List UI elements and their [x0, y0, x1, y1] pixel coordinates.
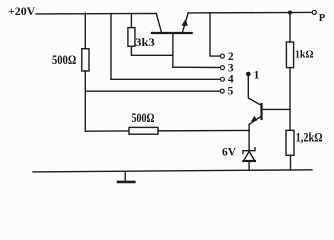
zener diode triangle [244, 151, 255, 161]
svg-text:5: 5 [228, 86, 234, 98]
svg-text:6V: 6V [222, 145, 236, 159]
svg-text:3k3: 3k3 [135, 35, 155, 49]
wire: Q1 base lead down [172, 34, 174, 67]
transistor Q1 emitter arrow [181, 19, 187, 26]
transistor Q1 emitter lead [182, 13, 188, 33]
wire: vertical drop from rail to 3k3 [130, 13, 132, 27]
wire: to terminal 3 [173, 66, 220, 68]
wire: vertical drop from rail to terminal 4 line [110, 14, 112, 80]
terminal 5 [220, 89, 224, 93]
terminal 1 (dot) [246, 72, 251, 77]
terminal P [312, 10, 316, 14]
transistor Q2 emitter arrow [251, 116, 258, 122]
resistor 500ohm (horizontal) [129, 127, 158, 134]
wire: lower horizontal run with 500ohm [85, 129, 249, 132]
wire: branch to terminal 5 [85, 90, 220, 92]
terminal 2 [220, 54, 224, 58]
svg-text:1,2kΩ: 1,2kΩ [296, 130, 323, 144]
terminal 3 [220, 66, 224, 70]
wire: to terminal 4 [111, 78, 220, 80]
transistor Q1 collector lead [156, 14, 161, 33]
wire: vertical from output rail to terminal 2 [210, 13, 220, 56]
svg-text:4: 4 [228, 74, 234, 86]
wire: vertical drop to 500 ohm resistor [84, 13, 86, 49]
resistor 1,2kohm [286, 130, 294, 155]
wire: zener bottom lead [248, 161, 250, 170]
svg-text:500Ω: 500Ω [132, 111, 155, 125]
svg-text:+20V: +20V [8, 6, 36, 18]
wire: output rail right segment to P [188, 11, 312, 14]
svg-text:P: P [319, 13, 326, 24]
wire: rail down to 1k resistor [289, 13, 291, 43]
transistor Q2 base bar [260, 104, 262, 119]
terminal 4 [220, 77, 224, 81]
zener diode base (thick) [243, 160, 255, 162]
svg-text:3: 3 [228, 62, 234, 74]
transistor Q2 emitter lead [249, 116, 261, 124]
wire: Q2 base line to divider node [263, 108, 291, 110]
wire: ground rail [33, 170, 312, 172]
transistor Q1 (series pass) base bar [152, 32, 192, 34]
svg-text:500Ω: 500Ω [52, 52, 76, 67]
zener diode 6V: cathode bar with bent ends [243, 148, 255, 154]
ground symbol bar [118, 181, 134, 184]
wire: 1,2k bottom lead to ground rail [290, 155, 292, 170]
wire: +20V top rail (left segment) [36, 13, 156, 15]
svg-text:1kΩ: 1kΩ [295, 50, 314, 61]
wire: 1k bottom to divider node [289, 68, 291, 131]
wire: Q2 emitter down to node [248, 124, 250, 130]
wire: zener top lead [248, 131, 250, 151]
wire: 3k3 bottom lead to Q1 base line [131, 46, 173, 55]
junction: rail / 1k divider [288, 11, 292, 15]
resistor 3k3 [128, 28, 135, 47]
wire: terminal 1 down to Q2 collector [248, 76, 261, 105]
wire: below 500ohm down to lower horizontal run [84, 71, 86, 131]
resistor 1kohm [286, 42, 293, 68]
svg-text:2: 2 [228, 51, 234, 63]
svg-text:1: 1 [254, 70, 260, 82]
resistor 500ohm (vertical) [82, 49, 89, 71]
ground symbol stub [124, 171, 126, 181]
